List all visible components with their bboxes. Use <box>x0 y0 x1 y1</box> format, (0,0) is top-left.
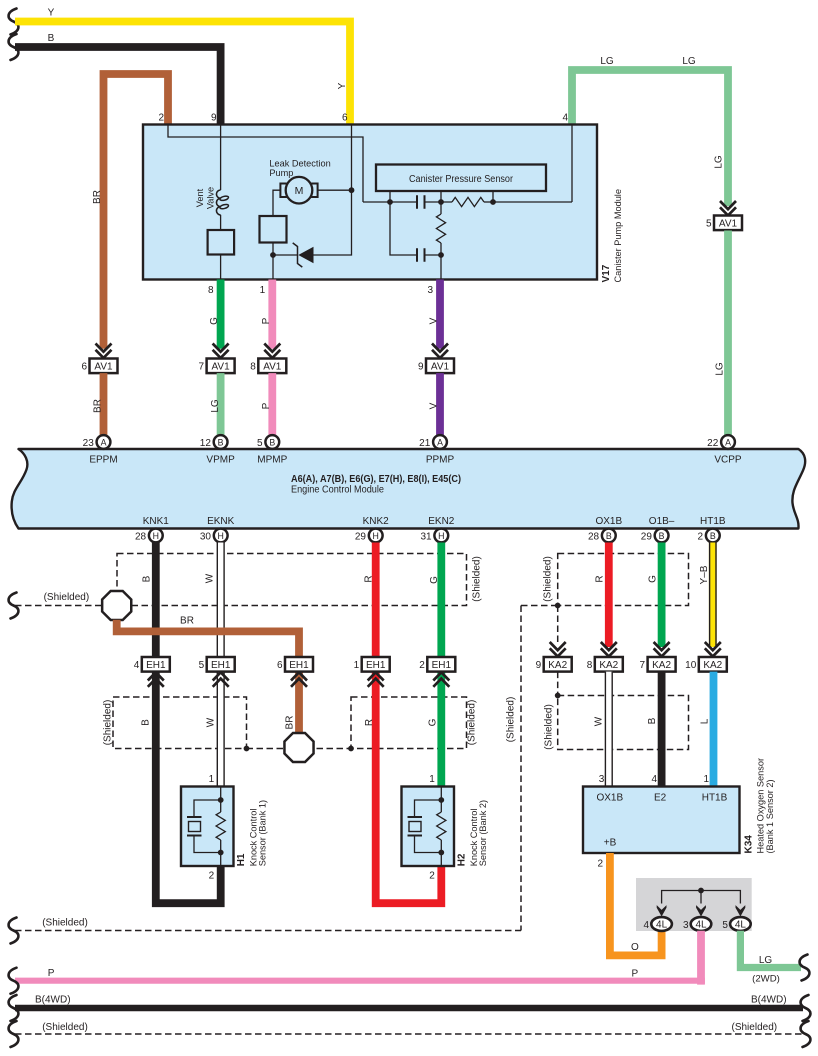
svg-text:EPPM: EPPM <box>89 455 117 466</box>
arrow into 3 4L <box>696 905 706 916</box>
svg-text:LG: LG <box>600 56 614 67</box>
connector 8 KA2 <box>601 642 617 657</box>
node sensor mid <box>438 199 444 205</box>
connector 5 4L <box>730 917 751 931</box>
wire R OX1B <box>605 543 613 648</box>
svg-text:KA2: KA2 <box>548 660 567 671</box>
svg-text:V: V <box>429 317 440 324</box>
svg-text:1: 1 <box>209 774 215 785</box>
svg-text:(Shielded): (Shielded) <box>467 700 478 746</box>
svg-text:AV1: AV1 <box>431 362 450 373</box>
svg-text:OX1B: OX1B <box>595 516 622 527</box>
canister pressure sensor box <box>376 165 546 192</box>
node shield row2 right <box>348 746 354 752</box>
svg-text:1: 1 <box>703 774 709 785</box>
svg-text:M: M <box>295 185 304 197</box>
wire internal pin9 to vent valve <box>220 125 222 191</box>
wire P bus <box>15 978 705 984</box>
connector 9 AV1 <box>432 344 448 359</box>
svg-text:1: 1 <box>260 285 266 296</box>
capacitor C2 <box>417 248 425 261</box>
wire motor right terminal <box>318 189 352 191</box>
shield box right row2 <box>558 696 689 750</box>
H2 resistor <box>437 812 446 840</box>
shield box row1 left <box>117 554 467 606</box>
svg-text:P: P <box>632 969 639 980</box>
svg-text:B: B <box>218 437 224 447</box>
svg-text:Vent: Vent <box>195 188 205 207</box>
knock sensor H1 box <box>181 787 234 867</box>
squiggle break shield bus <box>9 593 19 619</box>
wire pin4 internal <box>571 125 573 203</box>
svg-text:B: B <box>659 531 665 541</box>
svg-text:21: 21 <box>419 438 431 449</box>
wire sensor net horizontal <box>363 201 441 203</box>
svg-text:5: 5 <box>199 660 205 671</box>
svg-text:B: B <box>647 717 658 724</box>
svg-text:EH1: EH1 <box>289 660 309 671</box>
svg-text:(Shielded): (Shielded) <box>44 592 90 603</box>
svg-text:31: 31 <box>420 531 432 542</box>
svg-text:VPMP: VPMP <box>206 455 235 466</box>
wire LG to ECM <box>217 373 225 435</box>
squiggle break B4WD left <box>9 995 19 1021</box>
svg-text:LG: LG <box>714 155 725 169</box>
squiggle break shield mid <box>9 918 19 944</box>
svg-text:KA2: KA2 <box>599 660 618 671</box>
wire P to ECM <box>268 373 276 435</box>
connector 3 4L <box>691 917 712 931</box>
svg-text:8: 8 <box>587 660 593 671</box>
module V17 Canister Pump Module box <box>143 125 597 280</box>
wire diode to pin6 net <box>314 125 352 256</box>
H1 node bottom <box>218 850 224 856</box>
svg-text:G: G <box>429 576 440 584</box>
connector 5 AV1 <box>720 201 736 216</box>
svg-text:3: 3 <box>683 920 689 931</box>
pin 23 A EPPM <box>97 435 111 449</box>
wire B to E2 <box>658 672 666 787</box>
svg-text:Y: Y <box>48 8 55 19</box>
shield link to long run <box>521 605 558 607</box>
svg-text:V: V <box>429 402 440 409</box>
wire B bus <box>15 47 221 125</box>
svg-text:BR: BR <box>180 616 194 627</box>
svg-text:22: 22 <box>707 438 719 449</box>
svg-text:AV1: AV1 <box>212 362 231 373</box>
connector 10 KA2 <box>705 642 721 657</box>
node 4L bracket <box>698 888 704 894</box>
svg-text:29: 29 <box>641 531 653 542</box>
svg-text:Heated Oxygen Sensor: Heated Oxygen Sensor <box>756 758 766 854</box>
svg-text:28: 28 <box>588 531 600 542</box>
shield drain KA2 to row2 <box>557 672 559 696</box>
svg-text:H: H <box>218 531 224 541</box>
svg-text:W: W <box>594 716 605 726</box>
connector 7 AV1 <box>213 344 229 359</box>
wire B 4WD bus <box>15 1005 803 1012</box>
svg-text:30: 30 <box>200 531 212 542</box>
svg-text:BR: BR <box>284 716 295 730</box>
svg-text:B(4WD): B(4WD) <box>35 995 71 1006</box>
svg-text:LG: LG <box>715 362 726 376</box>
connector 7 KA2 <box>654 642 670 657</box>
valve box <box>220 215 222 230</box>
connector 4 4L <box>651 917 672 931</box>
svg-text:1: 1 <box>354 660 360 671</box>
node shield row2 left <box>244 746 250 752</box>
pump box <box>260 216 287 243</box>
svg-text:(Shielded): (Shielded) <box>42 918 88 929</box>
svg-text:B: B <box>48 33 55 44</box>
svg-text:9: 9 <box>211 113 217 124</box>
squiggle break shield bottom left <box>9 1021 19 1047</box>
svg-text:12: 12 <box>200 438 212 449</box>
svg-text:BR: BR <box>92 190 103 204</box>
svg-text:G: G <box>647 575 658 583</box>
svg-text:4L: 4L <box>735 920 747 931</box>
capacitor C1 <box>417 195 425 208</box>
svg-text:(Shielded): (Shielded) <box>544 704 555 750</box>
wire pump box to node <box>272 243 274 280</box>
connector 1 EH1 <box>368 672 384 687</box>
svg-text:B: B <box>606 531 612 541</box>
svg-text:(Shielded): (Shielded) <box>472 556 483 602</box>
wire left branch to C2 <box>390 202 417 255</box>
svg-text:Sensor (Bank 2): Sensor (Bank 2) <box>478 800 488 866</box>
svg-text:R: R <box>364 719 375 726</box>
node motor right <box>349 187 355 193</box>
svg-text:(Shielded): (Shielded) <box>103 700 114 746</box>
node junction pin1 <box>270 252 276 258</box>
H2 piezo element <box>415 800 442 853</box>
squiggle break B bus <box>9 34 19 60</box>
svg-text:2: 2 <box>158 113 164 124</box>
shield bus mid <box>15 930 521 932</box>
connector 5 EH1 <box>213 672 229 687</box>
svg-text:23: 23 <box>83 438 95 449</box>
wire LG 2WD <box>740 931 801 968</box>
H2 node top <box>438 797 444 803</box>
squiggle break LG right <box>800 955 810 981</box>
svg-text:(2WD): (2WD) <box>752 974 780 985</box>
pin 21 A PPMP <box>433 435 447 449</box>
svg-text:O: O <box>631 942 639 953</box>
node sensor left <box>387 199 393 205</box>
shield drain to 9 KA2 <box>557 606 559 643</box>
node C2 out <box>438 252 444 258</box>
svg-text:H: H <box>438 531 444 541</box>
svg-text:Valve: Valve <box>206 187 216 209</box>
svg-text:H1: H1 <box>236 853 247 866</box>
connector 4 EH1 <box>148 672 164 687</box>
connector 2 EH1 <box>433 672 449 687</box>
svg-text:B: B <box>141 719 152 726</box>
svg-text:KNK1: KNK1 <box>143 516 170 527</box>
svg-text:(Shielded): (Shielded) <box>506 697 517 743</box>
wire BR top <box>104 74 169 349</box>
svg-text:A: A <box>101 437 107 447</box>
svg-text:K34: K34 <box>744 835 755 854</box>
wire R KNK2 <box>376 543 442 904</box>
wire P bus vertical <box>697 931 705 985</box>
svg-text:8: 8 <box>250 362 256 373</box>
svg-text:HT1B: HT1B <box>700 516 726 527</box>
svg-text:7: 7 <box>640 660 646 671</box>
H1 piezo element <box>194 800 221 853</box>
wire W EKNK <box>217 543 225 787</box>
svg-text:Y–B: Y–B <box>699 565 710 584</box>
svg-text:(Shielded): (Shielded) <box>42 1022 88 1033</box>
svg-text:2: 2 <box>698 531 704 542</box>
svg-text:6: 6 <box>277 660 283 671</box>
svg-text:LG: LG <box>682 56 696 67</box>
wire P pin1 <box>268 280 276 349</box>
svg-text:P: P <box>261 402 272 409</box>
H1 node top <box>218 797 224 803</box>
svg-text:HT1B: HT1B <box>702 793 728 804</box>
svg-text:2: 2 <box>429 871 435 882</box>
svg-text:KA2: KA2 <box>703 660 722 671</box>
svg-text:G: G <box>209 317 220 325</box>
svg-text:B(4WD): B(4WD) <box>751 995 787 1006</box>
svg-text:AV1: AV1 <box>719 219 738 230</box>
svg-text:+B: +B <box>604 838 617 849</box>
svg-text:W: W <box>205 573 216 583</box>
module K34 Heated Oxygen Sensor box <box>583 787 740 854</box>
svg-text:H: H <box>153 531 159 541</box>
svg-text:2: 2 <box>209 871 215 882</box>
svg-text:LG: LG <box>210 399 221 413</box>
svg-text:B: B <box>269 437 275 447</box>
squiggle break P bus <box>9 968 19 994</box>
svg-text:BR: BR <box>93 399 104 413</box>
svg-text:AV1: AV1 <box>94 362 113 373</box>
wire V pin3 <box>436 280 444 349</box>
wire valve to pin 8 <box>220 255 222 280</box>
resistor R2 vertical <box>440 202 442 214</box>
svg-text:W: W <box>205 717 216 727</box>
resistor R1 <box>452 197 484 206</box>
wire LG top <box>572 70 728 206</box>
svg-text:(Bank 1 Sensor 2): (Bank 1 Sensor 2) <box>765 779 775 853</box>
svg-text:4: 4 <box>652 774 658 785</box>
wire V to ECM <box>436 373 444 435</box>
wire B KNK1 <box>156 543 221 904</box>
svg-text:2: 2 <box>419 660 425 671</box>
svg-text:10: 10 <box>685 660 697 671</box>
svg-text:29: 29 <box>355 531 367 542</box>
wire L to HT1B <box>710 672 718 787</box>
connector 8 AV1 <box>264 344 280 359</box>
node sensor right <box>490 199 496 205</box>
inductor vent valve coil <box>216 190 220 215</box>
connector 6 AV1 <box>96 344 112 359</box>
svg-text:4: 4 <box>562 113 568 124</box>
svg-text:7: 7 <box>199 362 205 373</box>
svg-text:Pump: Pump <box>269 168 293 178</box>
motor M leak detection pump <box>280 184 287 198</box>
wire Y-B HT1B <box>709 543 717 648</box>
pin 5 B MPMP <box>265 435 279 449</box>
svg-text:3: 3 <box>599 774 605 785</box>
svg-text:B: B <box>710 531 716 541</box>
svg-text:O1B–: O1B– <box>649 516 675 527</box>
svg-text:AV1: AV1 <box>263 362 282 373</box>
svg-text:R: R <box>364 575 375 582</box>
svg-text:H2: H2 <box>457 853 468 866</box>
svg-text:2: 2 <box>597 859 603 870</box>
wire G O1B- <box>658 543 666 648</box>
arrow into 4 4L <box>657 905 667 916</box>
wire node to diode <box>273 254 298 256</box>
knock sensor H2 box <box>402 787 455 867</box>
wire BR shield <box>117 620 299 734</box>
svg-text:P: P <box>48 968 55 979</box>
pin 22 A VCPP <box>721 435 735 449</box>
shield box row2 mid <box>351 697 467 749</box>
svg-text:EH1: EH1 <box>366 660 386 671</box>
svg-text:A: A <box>725 437 731 447</box>
svg-text:9: 9 <box>418 362 424 373</box>
svg-text:KA2: KA2 <box>652 660 671 671</box>
octagon shield terminal 2 <box>284 733 313 762</box>
connector 6 EH1 <box>291 672 307 687</box>
svg-text:V17: V17 <box>601 264 612 282</box>
svg-text:4L: 4L <box>656 920 668 931</box>
connector block gray box <box>636 878 752 931</box>
squiggle break B4WD right <box>801 995 811 1021</box>
wire motor left to pump box <box>273 190 280 216</box>
svg-text:28: 28 <box>135 531 147 542</box>
svg-text:KNK2: KNK2 <box>363 516 390 527</box>
svg-text:A: A <box>437 437 443 447</box>
wire 4L bracket <box>662 891 741 904</box>
svg-text:4: 4 <box>134 660 140 671</box>
node shield right row2 <box>555 693 561 699</box>
H1 resistor <box>216 812 225 840</box>
shield link octagon2 <box>247 748 352 750</box>
module Engine Control Module band <box>12 449 806 529</box>
svg-text:1: 1 <box>429 774 435 785</box>
shield box row2 left <box>113 697 247 749</box>
svg-text:A6(A), A7(B), E6(G), E7(H), E8: A6(A), A7(B), E6(G), E7(H), E8(I), E45(C… <box>291 474 461 485</box>
svg-text:L: L <box>700 718 711 724</box>
svg-text:(Shielded): (Shielded) <box>543 556 554 602</box>
wire W to OX1B <box>605 672 613 787</box>
svg-text:E2: E2 <box>654 793 667 804</box>
svg-text:OX1B: OX1B <box>596 793 623 804</box>
svg-text:Canister Pressure Sensor: Canister Pressure Sensor <box>409 174 514 185</box>
svg-text:EH1: EH1 <box>432 660 452 671</box>
svg-text:Y: Y <box>337 82 348 89</box>
svg-text:EKN2: EKN2 <box>428 516 455 527</box>
H2 internal wiring <box>440 787 442 867</box>
svg-text:B: B <box>142 575 153 582</box>
shield long vertical <box>520 606 522 931</box>
wire O +B <box>610 853 662 955</box>
sensor pin drops <box>390 191 493 202</box>
shield bus left <box>15 605 103 607</box>
zener diode <box>293 243 303 267</box>
svg-text:5: 5 <box>706 219 712 230</box>
svg-text:PPMP: PPMP <box>426 455 455 466</box>
wire Y bus <box>15 22 350 125</box>
svg-text:Engine Control Module: Engine Control Module <box>291 485 384 496</box>
svg-text:6: 6 <box>81 362 87 373</box>
wire node to pin3 <box>440 255 442 280</box>
svg-text:(Shielded): (Shielded) <box>732 1022 778 1033</box>
wire BR to ECM <box>100 373 108 435</box>
svg-text:4L: 4L <box>695 920 707 931</box>
svg-text:P: P <box>261 317 272 324</box>
svg-text:MPMP: MPMP <box>257 455 287 466</box>
svg-text:R: R <box>594 575 605 582</box>
svg-text:4: 4 <box>644 920 650 931</box>
wire G pin8 <box>217 280 225 349</box>
shield bus bottom <box>15 1033 803 1035</box>
svg-text:VCPP: VCPP <box>714 455 742 466</box>
wire internal pin2 net <box>168 125 363 203</box>
svg-text:Sensor (Bank 1): Sensor (Bank 1) <box>258 800 268 866</box>
svg-text:5: 5 <box>257 438 263 449</box>
svg-text:Leak Detection: Leak Detection <box>269 158 330 168</box>
wire G EKN2 <box>437 543 445 787</box>
svg-text:6: 6 <box>342 113 348 124</box>
squiggle break shield bottom right <box>801 1021 811 1047</box>
svg-text:3: 3 <box>427 285 433 296</box>
svg-text:G: G <box>428 718 439 726</box>
svg-text:EH1: EH1 <box>146 660 166 671</box>
arrow into 5 4L <box>736 905 746 916</box>
svg-text:8: 8 <box>208 285 214 296</box>
svg-text:H: H <box>373 531 379 541</box>
squiggle break Y bus <box>9 9 19 35</box>
connector 9 KA2 <box>550 642 566 657</box>
pin 12 B VPMP <box>214 435 228 449</box>
H2 node bottom <box>438 850 444 856</box>
svg-text:5: 5 <box>722 920 728 931</box>
svg-text:EH1: EH1 <box>211 660 231 671</box>
octagon shield terminal 1 <box>102 591 131 620</box>
svg-text:Canister Pump Module: Canister Pump Module <box>613 189 623 282</box>
svg-text:EKNK: EKNK <box>207 516 235 527</box>
shield box right row1 <box>558 554 689 606</box>
H1 internal wiring <box>220 787 222 867</box>
wire LG below AV1 <box>724 231 732 436</box>
svg-text:9: 9 <box>536 660 542 671</box>
node shield right row1 <box>555 603 561 609</box>
svg-text:LG: LG <box>759 955 773 966</box>
